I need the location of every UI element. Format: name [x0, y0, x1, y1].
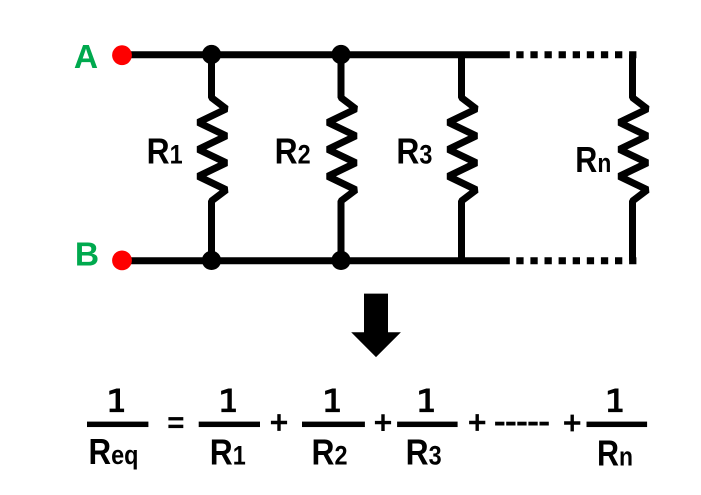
svg-text:R2: R2	[312, 432, 348, 473]
svg-text:A: A	[74, 39, 98, 76]
svg-text:R3: R3	[406, 432, 442, 473]
svg-text:Rn: Rn	[597, 432, 633, 473]
svg-text:R1: R1	[210, 432, 246, 473]
svg-text:R3: R3	[396, 130, 432, 171]
svg-text:Rn: Rn	[575, 139, 611, 180]
svg-text:B: B	[75, 237, 99, 274]
svg-text:R1: R1	[147, 130, 183, 171]
svg-text:Req: Req	[89, 431, 139, 472]
svg-text:R2: R2	[275, 130, 311, 171]
